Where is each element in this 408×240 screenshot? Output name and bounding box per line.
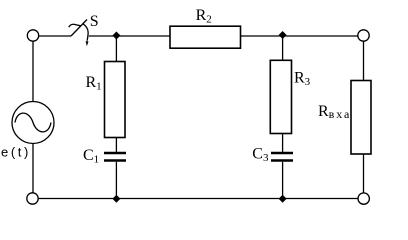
wire left vertical lower: [32, 144, 34, 193]
wire R3 to C3: [282, 134, 284, 153]
node junction top-right (dot): [279, 31, 287, 39]
resistor Rvx box: [351, 81, 371, 155]
capacitor C3 top plate: [271, 152, 293, 155]
switch motion arc: [83, 24, 88, 41]
terminal bottom-right: [358, 193, 369, 204]
wire right vertical lower: [363, 154, 365, 193]
resistor R3 box: [270, 60, 291, 133]
wire R2 to right terminal: [241, 35, 359, 37]
capacitor C3 bottom plate: [271, 159, 293, 162]
resistor R2 box: [170, 26, 241, 48]
terminal top-left: [27, 30, 38, 41]
node junction top-left (dot): [112, 32, 120, 40]
terminal bottom-left: [27, 193, 38, 204]
source sine wave: [15, 113, 51, 132]
node junction bottom-right (dot): [279, 195, 287, 203]
wire C1 to bottom rail: [115, 162, 117, 199]
source e(t) circle: [12, 102, 54, 144]
wire top-left to switch: [39, 35, 71, 37]
node junction bottom-left (dot): [112, 195, 120, 203]
wire left vertical upper: [32, 41, 34, 101]
capacitor C1 bottom plate: [104, 159, 126, 162]
resistor R1 box: [105, 62, 126, 138]
switch arrowhead: [86, 41, 89, 46]
wire R1 branch top: [115, 36, 117, 62]
svg-text:e(t): e(t): [1, 145, 31, 160]
capacitor C1 top plate: [104, 152, 126, 155]
switch tick curve: [69, 24, 81, 27]
switch S blade: [71, 20, 87, 37]
wire R1 to C1: [115, 138, 117, 153]
wire C3 to bottom rail: [282, 162, 284, 199]
terminal top-right: [358, 30, 369, 41]
wire right vertical upper: [363, 41, 365, 80]
wire switch to R2: [89, 35, 170, 37]
bottom rail wire: [38, 198, 358, 200]
svg-text:S: S: [90, 13, 99, 30]
wire R3 branch top: [282, 35, 284, 60]
